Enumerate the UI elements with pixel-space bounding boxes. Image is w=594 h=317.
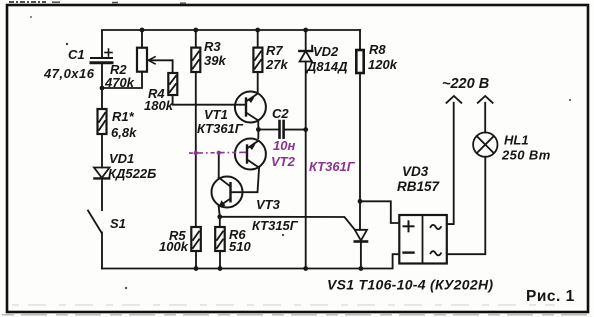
capacitor C2	[258, 129, 279, 131]
svg-text:VT1: VT1	[204, 107, 228, 122]
svg-text:39k: 39k	[204, 53, 226, 68]
wire R2 bottom to left rail	[102, 72, 142, 88]
purple node on R3-R5 line	[194, 151, 198, 155]
wire S1 to bottom rail	[101, 233, 103, 269]
wire VT3 emitter to R6	[219, 217, 221, 227]
wire VT3 emitter to VS1 gate	[220, 217, 355, 230]
resistor R6	[215, 227, 225, 251]
zener VD2	[305, 30, 307, 51]
svg-text:S1: S1	[110, 216, 126, 231]
switch S1	[88, 211, 102, 233]
svg-text:VD3: VD3	[402, 164, 429, 179]
rectifier bridge VD3	[399, 215, 447, 264]
svg-text:C1: C1	[68, 47, 85, 62]
svg-text:КД522Б: КД522Б	[108, 166, 156, 181]
wire VT2 collector to VT3 base	[231, 168, 260, 193]
resistor R8	[356, 50, 363, 73]
wire VT3 emitter down	[219, 207, 220, 217]
transistor VT2	[235, 139, 266, 170]
resistor R1	[98, 109, 107, 134]
svg-text:VT3: VT3	[256, 197, 281, 212]
wire R2 top	[141, 30, 143, 48]
wire bridge ac top to mains arrow	[447, 103, 454, 224]
capacitor C1	[91, 58, 112, 63]
purple node at VT3 collector	[217, 151, 221, 155]
svg-text:VT2: VT2	[271, 154, 296, 169]
svg-text:Рис. 1: Рис. 1	[526, 288, 575, 305]
wire wiper to R4	[172, 60, 174, 73]
wire mains arrow right to lamp	[484, 103, 486, 133]
potentiometer R2	[137, 48, 147, 72]
wire left rail below C1	[101, 63, 103, 109]
svg-text:VD2: VD2	[313, 44, 339, 59]
svg-text:КТ315Г: КТ315Г	[252, 218, 299, 233]
svg-text:VD1: VD1	[109, 151, 134, 166]
mains arrow left	[447, 96, 462, 103]
R2 wiper arrow	[150, 59, 173, 61]
svg-text:R8: R8	[369, 42, 386, 57]
svg-text:R3: R3	[204, 39, 221, 54]
svg-text:470k: 470k	[104, 75, 135, 90]
svg-text:120k: 120k	[368, 57, 398, 72]
wire R6 to bottom rail	[219, 251, 221, 269]
svg-text:100k: 100k	[159, 239, 189, 254]
svg-text:180k: 180k	[144, 98, 174, 113]
wire VT1 collector to C2 node	[257, 120, 259, 129]
lamp HL1	[473, 132, 497, 156]
mains arrow right	[478, 96, 493, 103]
wire R1 to VD1	[101, 134, 103, 168]
svg-text:10н: 10н	[273, 138, 295, 153]
svg-text:250 Вm: 250 Вm	[501, 148, 551, 163]
wire VS1 anode to bridge plus	[360, 201, 399, 223]
svg-text:6,8k: 6,8k	[111, 125, 137, 140]
wire R7 to VT1 emitter	[257, 72, 259, 93]
svg-text:27k: 27k	[265, 57, 288, 72]
svg-text:510: 510	[229, 239, 251, 254]
resistor R3	[195, 30, 197, 48]
svg-text:VS1 T106-10-4 (КУ202Н): VS1 T106-10-4 (КУ202Н)	[327, 277, 493, 293]
purple correction wire VT2 base	[189, 151, 247, 154]
thyristor VS1	[355, 230, 367, 241]
svg-text:R1*: R1*	[112, 109, 135, 124]
wire R8 to VS1 anode	[359, 73, 361, 230]
svg-text:Д814Д: Д814Д	[306, 59, 348, 74]
scan artifacts	[9, 2, 186, 3]
svg-text:КТ361Г: КТ361Г	[309, 159, 356, 174]
wire lamp to bridge ac bottom	[447, 157, 486, 254]
svg-text:~220 В: ~220 В	[442, 76, 489, 92]
wire VD1 to S1	[101, 178, 103, 210]
svg-text:КТ361Г: КТ361Г	[197, 121, 244, 136]
wire bottom rail	[102, 254, 399, 268]
svg-text:R7: R7	[266, 43, 283, 58]
wire C2 node to VT2 emitter	[257, 130, 259, 139]
transistor VT1	[235, 92, 266, 123]
wire R5 to bottom rail	[195, 251, 197, 269]
wire VT3 collector up to node	[218, 153, 220, 178]
wire top rail	[102, 30, 360, 58]
resistor R7	[257, 30, 259, 48]
svg-text:RB157: RB157	[397, 179, 441, 194]
diode VD1	[94, 168, 110, 178]
transistor VT3	[212, 177, 243, 208]
svg-text:47,0x16: 47,0x16	[43, 66, 95, 81]
wire R8 drop	[359, 30, 361, 50]
wire R4 to VT1 base	[173, 95, 246, 105]
resistor R5	[191, 227, 201, 251]
resistor R4	[168, 73, 177, 95]
wire R3 to R5	[195, 72, 197, 227]
wire VS1 cathode to bottom rail	[360, 242, 362, 269]
svg-text:HL1: HL1	[504, 133, 529, 148]
wire VD2 line down to bottom rail	[305, 62, 307, 269]
svg-text:C2: C2	[272, 106, 289, 121]
